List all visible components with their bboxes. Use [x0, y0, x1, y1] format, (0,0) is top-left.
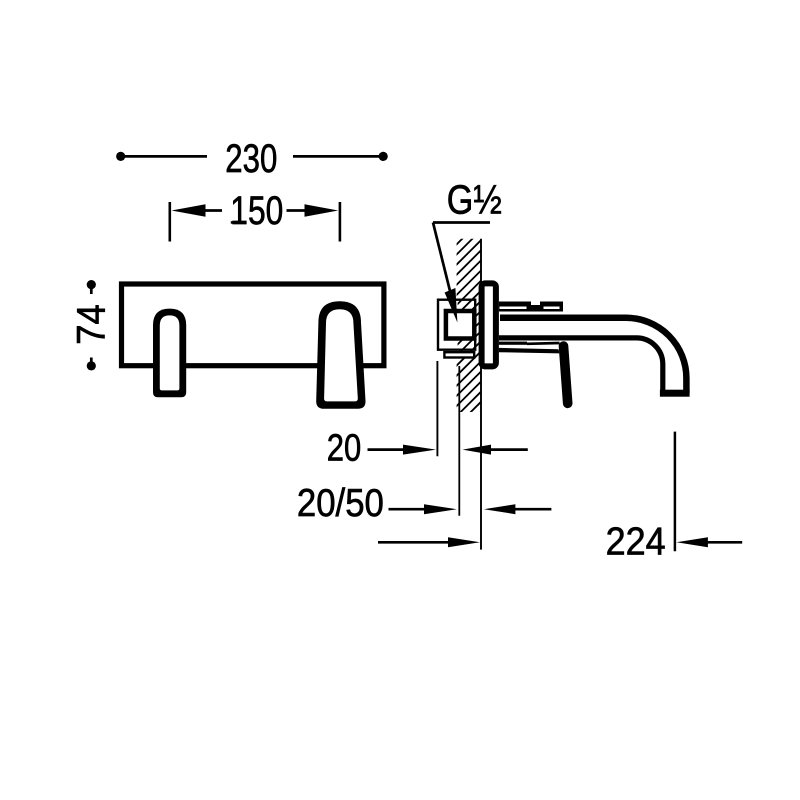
dimension 230 end dot right: [379, 152, 388, 161]
dimension 224 right line: [707, 541, 742, 544]
wall plate rectangle (front view): [122, 284, 384, 366]
right handle inner white: [324, 309, 358, 401]
dimension 20 arrow left: [463, 445, 492, 455]
G1/2 leader underline: [433, 221, 490, 224]
dimension 20 right line: [490, 448, 528, 451]
dimension 74 line stubs: [90, 285, 93, 366]
dimension 20/50 right line: [514, 508, 551, 511]
dimension 150 extension ticks: [170, 202, 340, 242]
body diagonal sliver: [527, 342, 560, 345]
serif foot for digit 1 of 150: [231, 221, 243, 224]
spout inner edge: [499, 338, 663, 390]
top band slot 2: [544, 307, 560, 310]
svg-text:20: 20: [327, 428, 362, 470]
svg-text:224: 224: [606, 520, 666, 563]
left handle inner white: [160, 315, 180, 390]
dimension 230 line: [121, 155, 384, 158]
dimension 74 end dot top: [87, 280, 96, 289]
G1/2 leader diagonal: [433, 223, 450, 292]
flange escutcheon (side view): [482, 283, 496, 366]
dimension 150 arrow right: [305, 204, 339, 217]
svg-text:230: 230: [225, 137, 277, 181]
svg-text:150: 150: [230, 189, 283, 233]
spout outer edge: [500, 318, 686, 393]
wall front line (line C): [480, 239, 482, 550]
left handle (front view) outer: [153, 309, 186, 398]
dimension 230 end dot left: [116, 152, 125, 161]
lever handle (side view): [564, 346, 568, 403]
wall section hatch: [436, 205, 496, 467]
dimension 150 line: [204, 209, 307, 212]
spout outlet cap: [660, 390, 690, 397]
dimension 20 line: [368, 448, 405, 451]
dimension 20/50 arrow left: [484, 504, 516, 514]
dimension 74 end dot bottom: [87, 361, 96, 370]
svg-text:74: 74: [69, 304, 113, 345]
dimension 20/50 arrow right: [424, 504, 457, 514]
right handle (lever front view) outer: [316, 301, 365, 409]
top band slot 1: [500, 307, 527, 310]
dimension 20/50 line: [389, 508, 425, 511]
rough-in box inner (G1/2 connection): [446, 311, 474, 339]
svg-text:G½: G½: [447, 177, 502, 223]
G1/2 leader arrowhead: [445, 288, 458, 323]
dimension 150 arrow left: [172, 204, 206, 217]
rough-in lower box: [444, 352, 474, 357]
wall back extension line (line B): [458, 366, 460, 516]
dimension 224 extension tick: [674, 432, 677, 552]
body under-line: [499, 342, 527, 345]
dimension 20 arrow right: [403, 445, 436, 455]
rough-in box outer (white fill left of wall): [437, 299, 458, 353]
dimension 224 arrow at wall: [448, 537, 480, 547]
box front extension line (line A): [436, 361, 438, 456]
valve body top band: [499, 302, 563, 312]
dimension 224 left line: [378, 541, 449, 544]
svg-text:20/50: 20/50: [297, 482, 384, 525]
lever hub bar: [499, 348, 560, 354]
dimension 224 arrow left: [676, 537, 708, 547]
